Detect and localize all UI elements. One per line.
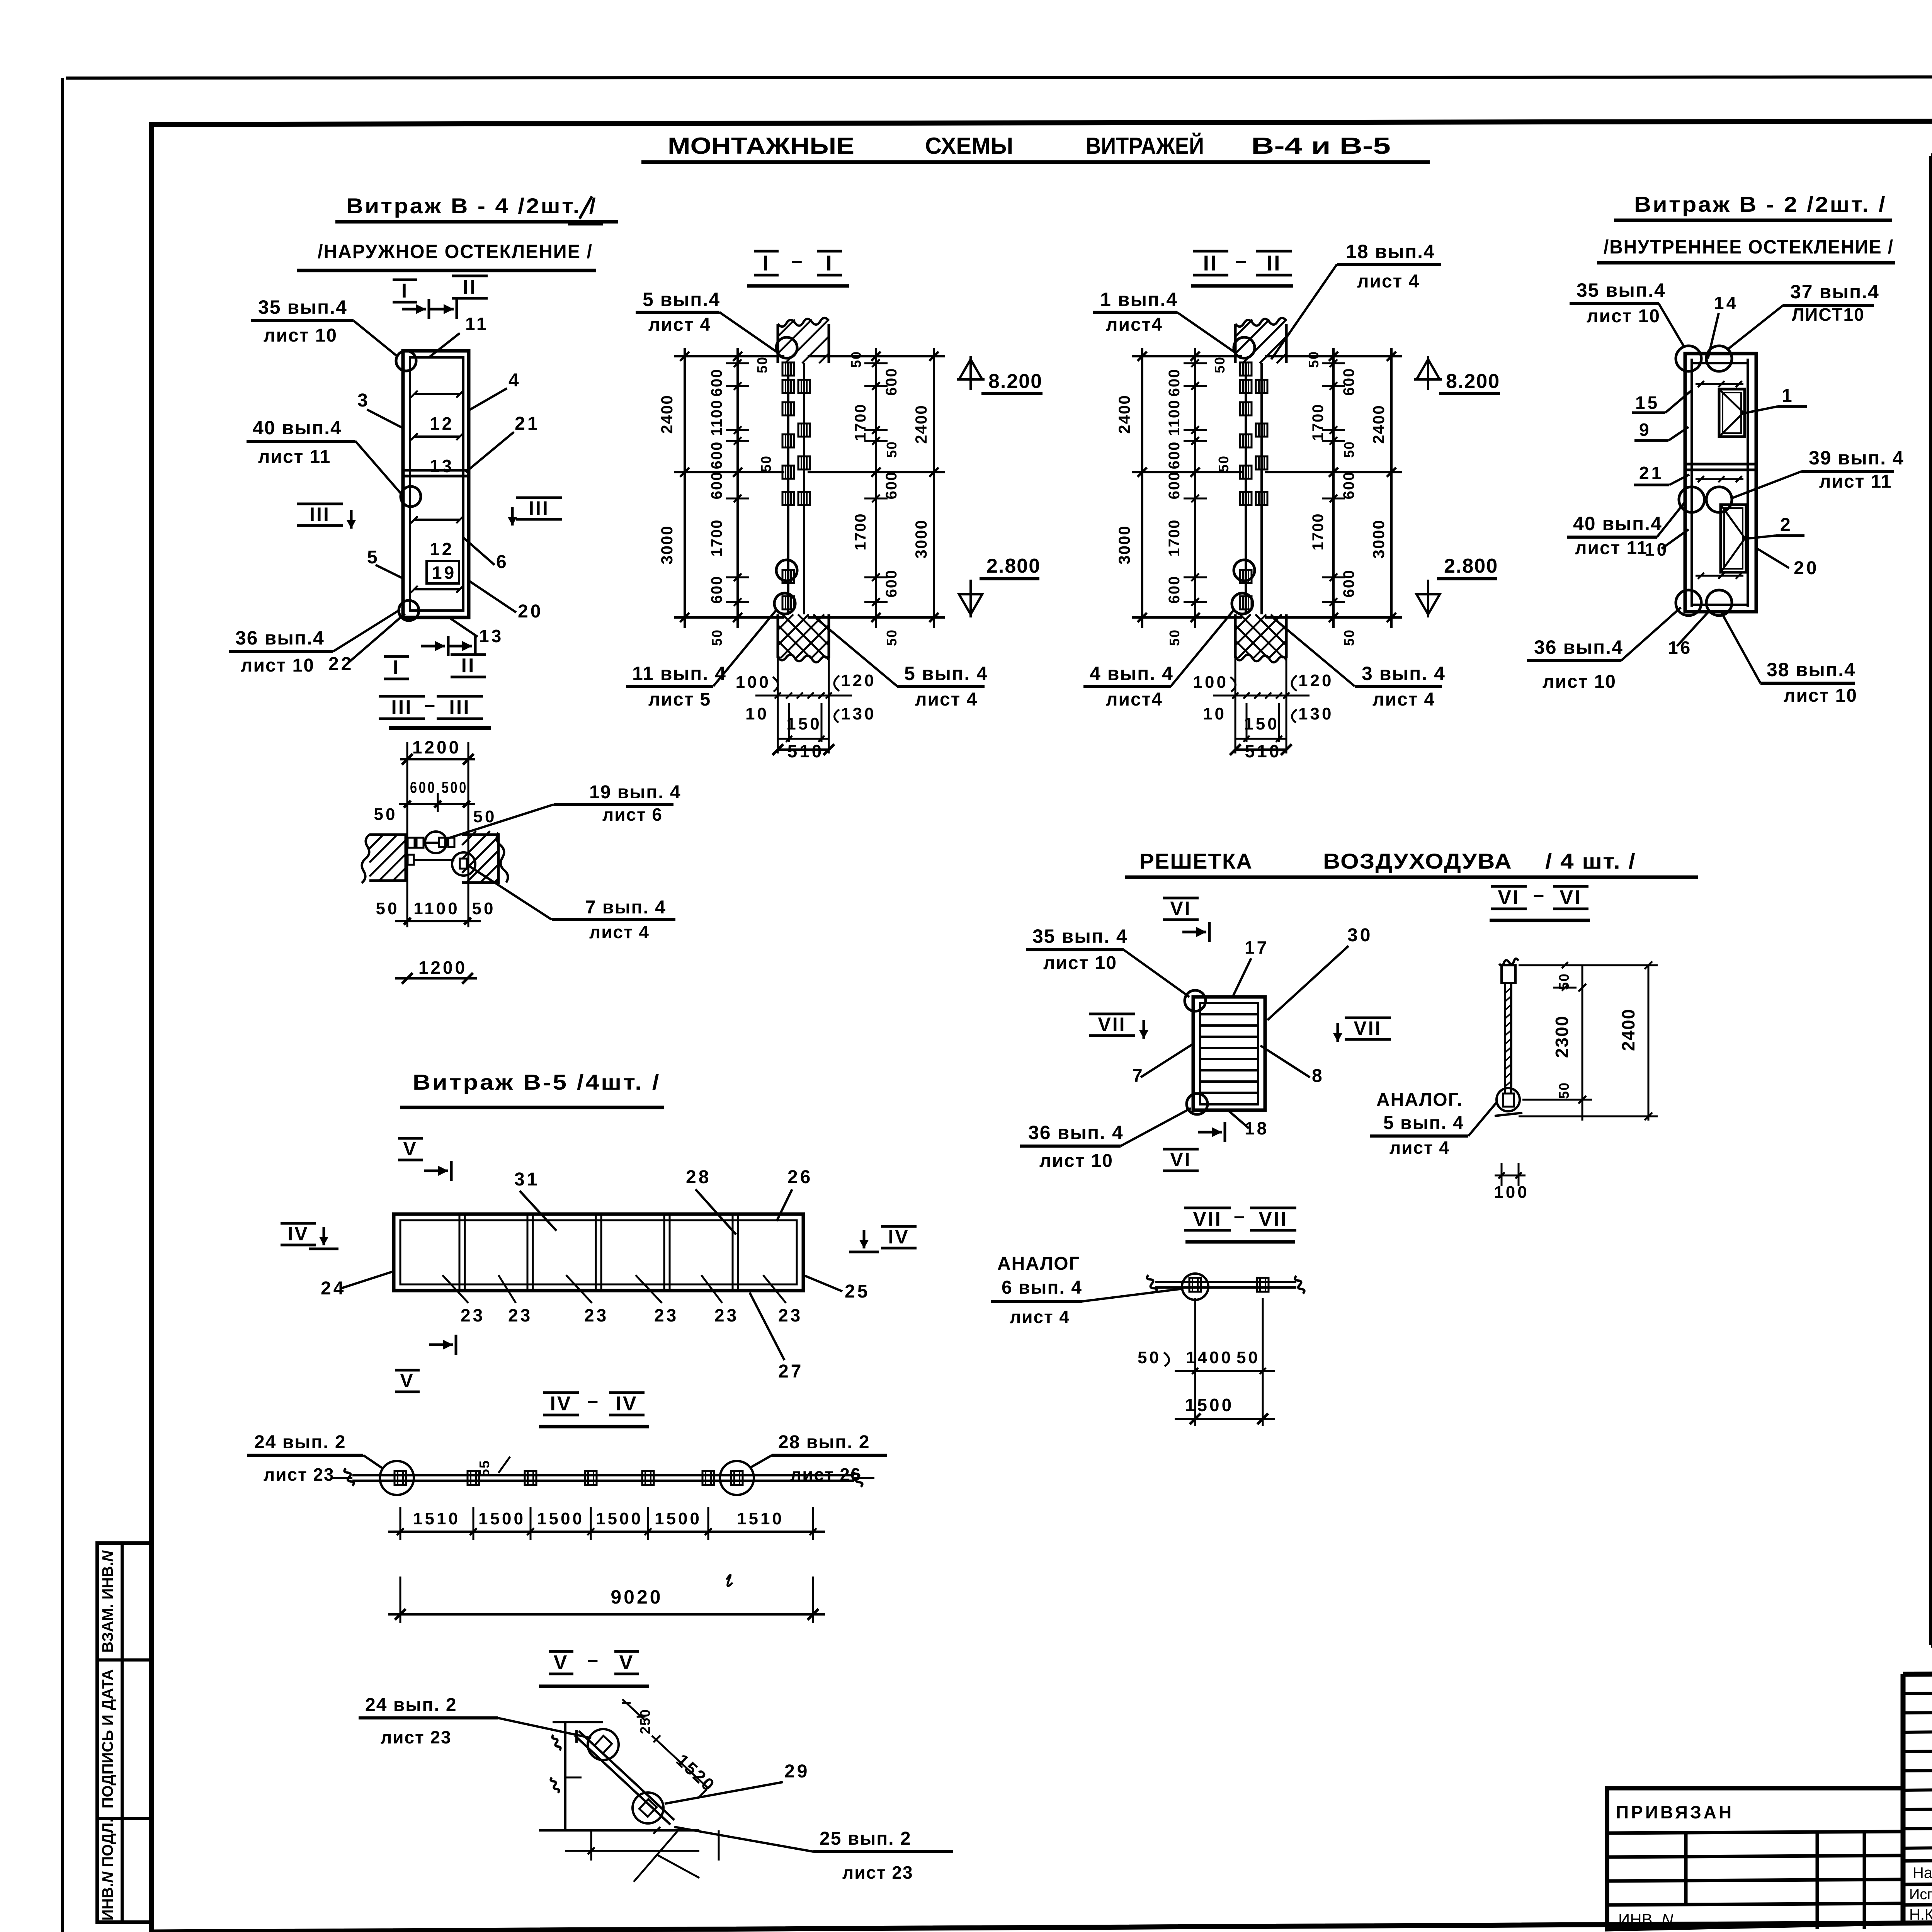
svg-text:3000: 3000: [658, 525, 676, 564]
svg-text:9020: 9020: [611, 1586, 663, 1608]
section I bottom hatched support: [778, 614, 829, 658]
svg-text:28 вып. 2: 28 вып. 2: [778, 1432, 870, 1452]
svg-text:1510: 1510: [413, 1509, 460, 1528]
svg-text:лист 4: лист 4: [1357, 271, 1420, 292]
svg-text:31: 31: [514, 1169, 539, 1190]
svg-text:1100: 1100: [1166, 400, 1183, 436]
svg-text:35 вып. 4: 35 вып. 4: [1032, 925, 1128, 947]
svg-text:7 вып. 4: 7 вып. 4: [585, 897, 666, 918]
svg-text:50: 50: [848, 351, 864, 368]
svg-text:лист 10: лист 10: [1784, 685, 1857, 706]
В-2 window frame: [1685, 354, 1756, 612]
svg-text:5 вып. 4: 5 вып. 4: [904, 663, 988, 684]
svg-text:2.800: 2.800: [1444, 555, 1498, 577]
svg-text:Нач.сек.: Нач.сек.: [1913, 1864, 1932, 1881]
svg-text:I: I: [401, 280, 408, 302]
section I level mark 2.800: [969, 580, 972, 617]
svg-text:3: 3: [357, 390, 370, 411]
svg-text:лист 5: лист 5: [648, 689, 711, 710]
svg-text:50: 50: [1341, 441, 1357, 458]
svg-text:АНАЛОГ: АНАЛОГ: [997, 1253, 1080, 1274]
svg-text:II: II: [461, 655, 476, 677]
svg-text:19 вып. 4: 19 вып. 4: [589, 782, 681, 803]
svg-text:–: –: [587, 1390, 600, 1412]
IV-IV dim 9020: [400, 1577, 401, 1623]
svg-text:19: 19: [432, 563, 456, 583]
svg-text:ВОЗДУХОДУВА: ВОЗДУХОДУВА: [1323, 849, 1512, 873]
svg-text:VI: VI: [1560, 886, 1582, 909]
svg-text:38 вып.4: 38 вып.4: [1767, 659, 1856, 680]
svg-text:600: 600: [1340, 471, 1357, 500]
svg-text:35 вып.4: 35 вып.4: [258, 296, 347, 318]
svg-text:V: V: [619, 1651, 634, 1674]
svg-text:лист4: лист4: [1106, 689, 1163, 710]
svg-text:лист 23: лист 23: [381, 1727, 452, 1747]
svg-text:ВИТРАЖЕЙ: ВИТРАЖЕЙ: [1086, 133, 1204, 159]
svg-text:лист4: лист4: [1106, 315, 1163, 335]
svg-text:ИНВ.N ПОДЛ.: ИНВ.N ПОДЛ.: [99, 1818, 116, 1921]
svg-text:250: 250: [637, 1709, 653, 1734]
svg-text:5 вып.4: 5 вып.4: [643, 289, 720, 310]
svg-text:VII: VII: [1193, 1208, 1222, 1230]
В-5 band: [394, 1214, 803, 1291]
svg-text:24 вып. 2: 24 вып. 2: [365, 1695, 457, 1715]
section I top hatched support: [778, 324, 829, 363]
svg-text:1510: 1510: [737, 1509, 784, 1528]
svg-text:11 вып. 4: 11 вып. 4: [632, 663, 726, 684]
svg-text:39 вып. 4: 39 вып. 4: [1809, 447, 1904, 469]
svg-text:600: 600: [708, 369, 725, 397]
svg-text:8: 8: [1312, 1066, 1325, 1086]
svg-text:25: 25: [845, 1281, 870, 1302]
В-4 horizontal divider: [403, 469, 469, 472]
svg-text:I: I: [762, 251, 770, 275]
svg-text:ПРИВЯЗАН: ПРИВЯЗАН: [1616, 1802, 1734, 1822]
svg-text:3000: 3000: [1369, 519, 1388, 558]
svg-text:лист 11: лист 11: [1819, 471, 1892, 492]
svg-text:/ВНУТРЕННЕЕ ОСТЕКЛЕНИЕ /: /ВНУТРЕННЕЕ ОСТЕКЛЕНИЕ /: [1604, 236, 1894, 258]
svg-text:/НАРУЖНОЕ ОСТЕКЛЕНИЕ /: /НАРУЖНОЕ ОСТЕКЛЕНИЕ /: [318, 241, 593, 262]
svg-text:1100: 1100: [413, 899, 459, 918]
main title underline: [641, 160, 1430, 164]
svg-text:–: –: [587, 1649, 600, 1670]
svg-text:24 вып. 2: 24 вып. 2: [254, 1432, 346, 1452]
svg-text:26: 26: [787, 1167, 813, 1187]
svg-text:1700: 1700: [852, 404, 869, 441]
VI-VI dim 2400: [1648, 965, 1650, 1121]
svg-text:В-4 и В-5: В-4 и В-5: [1251, 133, 1391, 159]
svg-text:МОНТАЖНЫЕ: МОНТАЖНЫЕ: [668, 133, 854, 159]
svg-text:VII: VII: [1098, 1014, 1126, 1035]
svg-text:II: II: [1266, 251, 1281, 275]
svg-text:600: 600: [883, 570, 900, 598]
svg-text:1100: 1100: [708, 400, 725, 436]
svg-text:5 вып. 4: 5 вып. 4: [1383, 1113, 1464, 1133]
svg-text:100: 100: [1193, 673, 1228, 692]
svg-text:55: 55: [476, 1460, 492, 1477]
svg-text:600: 600: [1340, 570, 1357, 598]
В-4 window frame: [403, 351, 469, 617]
svg-text:6 вып. 4: 6 вып. 4: [1002, 1277, 1082, 1298]
svg-text:1 вып.4: 1 вып.4: [1100, 289, 1178, 310]
svg-text:17: 17: [1245, 937, 1269, 957]
section II dimension verticals: [1141, 348, 1143, 628]
svg-text:–: –: [1533, 884, 1546, 905]
svg-text:2400: 2400: [912, 405, 930, 444]
svg-text:50: 50: [1138, 1348, 1161, 1367]
svg-text:II: II: [1203, 251, 1218, 275]
svg-text:16: 16: [1668, 638, 1692, 658]
svg-text:600: 600: [883, 471, 900, 500]
left attribute strip boxes: [97, 1543, 151, 1922]
В-4 inner dim lines: [414, 393, 460, 395]
svg-text:ВЗАМ. ИНВ.N: ВЗАМ. ИНВ.N: [99, 1550, 116, 1653]
svg-text:14: 14: [1714, 293, 1738, 313]
svg-text:–: –: [1236, 250, 1249, 272]
section I level mark 8.200: [969, 356, 972, 390]
svg-text:600: 600: [708, 471, 725, 500]
решетка grille: [1193, 997, 1265, 1110]
svg-text:50: 50: [374, 805, 398, 824]
svg-text:12: 12: [430, 413, 454, 434]
svg-text:23: 23: [461, 1305, 485, 1325]
svg-text:510: 510: [1245, 741, 1282, 761]
section II level mark 2.800: [1427, 580, 1429, 617]
svg-text:1700: 1700: [708, 519, 725, 557]
svg-text:50: 50: [1216, 455, 1231, 472]
svg-text:Витраж В-5 /4шт. /: Витраж В-5 /4шт. /: [413, 1070, 661, 1094]
svg-text:10: 10: [1645, 539, 1669, 560]
В-2 upper sash: [1719, 389, 1745, 437]
svg-text:–: –: [424, 694, 437, 715]
svg-text:СХЕМЫ: СХЕМЫ: [925, 133, 1013, 159]
svg-text:/ 4 шт. /: / 4 шт. /: [1545, 849, 1636, 873]
svg-text:10: 10: [1203, 704, 1226, 723]
svg-text:600: 600: [1340, 368, 1357, 396]
sheet outer border left: [61, 78, 64, 1932]
svg-text:3 вып. 4: 3 вып. 4: [1362, 663, 1446, 684]
svg-text:1700: 1700: [1310, 513, 1327, 551]
svg-text:2400: 2400: [1618, 1009, 1638, 1051]
В-2 divider: [1685, 463, 1756, 466]
svg-text:лист 10: лист 10: [1543, 672, 1616, 692]
svg-text:50: 50: [472, 899, 496, 918]
svg-text:23: 23: [584, 1305, 609, 1325]
svg-text:2: 2: [1780, 515, 1793, 535]
svg-text:III: III: [529, 497, 549, 519]
В-2 inner dim ticks: [1696, 383, 1743, 385]
IV-IV dim row: [400, 1507, 401, 1540]
svg-text:IV: IV: [550, 1393, 572, 1415]
svg-text:лист 10: лист 10: [264, 325, 337, 346]
sheet outer border top: [66, 77, 1932, 78]
svg-text:50: 50: [1167, 629, 1182, 646]
section II bottom hatched support: [1235, 614, 1286, 658]
svg-text:100: 100: [1494, 1183, 1529, 1202]
svg-text:150: 150: [786, 714, 821, 733]
svg-text:2400: 2400: [1115, 395, 1133, 434]
svg-text:36 вып.4: 36 вып.4: [235, 627, 325, 649]
svg-text:1500: 1500: [478, 1509, 526, 1528]
section II mullion: [1245, 363, 1247, 614]
svg-text:2400: 2400: [658, 395, 676, 434]
VI-VI dim 2300: [1582, 965, 1583, 1121]
svg-text:V: V: [403, 1138, 417, 1160]
svg-text:4 вып. 4: 4 вып. 4: [1090, 663, 1173, 684]
В-2 callout circles: [1676, 346, 1701, 371]
V-V diagonal band: [579, 1731, 674, 1820]
решетка callout circles: [1185, 990, 1206, 1011]
svg-text:37 вып.4: 37 вып.4: [1790, 281, 1879, 303]
svg-text:III: III: [449, 696, 470, 719]
V-V connector circles: [594, 1736, 612, 1753]
svg-text:Исполнил: Исполнил: [1909, 1886, 1932, 1903]
III-III hatched walls: [369, 835, 406, 881]
section I main horizontals: [674, 355, 784, 357]
svg-text:1700: 1700: [1166, 519, 1183, 557]
svg-text:Витраж В - 4 /2шт. /: Витраж В - 4 /2шт. /: [346, 194, 597, 218]
svg-text:лист 10: лист 10: [241, 655, 315, 676]
svg-text:V: V: [400, 1370, 414, 1391]
svg-text:2400: 2400: [1369, 405, 1388, 444]
В-2 lower sash: [1721, 505, 1746, 572]
svg-text:1200: 1200: [418, 957, 467, 978]
svg-text:лист 4: лист 4: [1372, 689, 1435, 710]
svg-text:120: 120: [841, 671, 876, 690]
svg-text:1700: 1700: [852, 513, 869, 551]
V-V corner structure: [564, 1722, 566, 1830]
svg-text:15: 15: [1635, 393, 1660, 413]
svg-text:4: 4: [509, 370, 521, 391]
svg-text:Витраж В - 2 /2шт. /: Витраж В - 2 /2шт. /: [1634, 192, 1887, 216]
svg-text:лист 4: лист 4: [1010, 1307, 1070, 1327]
svg-text:510: 510: [787, 741, 824, 761]
svg-text:11: 11: [465, 314, 489, 334]
svg-text:13: 13: [479, 626, 503, 646]
svg-text:23: 23: [714, 1305, 739, 1325]
svg-text:III: III: [310, 503, 330, 525]
svg-text:50: 50: [884, 441, 900, 458]
svg-text:12: 12: [430, 539, 454, 559]
svg-text:лист 11: лист 11: [1575, 538, 1648, 558]
svg-text:40 вып.4: 40 вып.4: [253, 417, 342, 439]
svg-text:29: 29: [784, 1761, 810, 1782]
svg-text:600: 600: [1166, 369, 1183, 397]
svg-text:150: 150: [1244, 714, 1279, 733]
svg-text:VII: VII: [1354, 1017, 1382, 1039]
svg-text:30: 30: [1347, 925, 1372, 946]
section II top hatched support: [1235, 324, 1286, 363]
svg-text:лист 4: лист 4: [589, 922, 650, 942]
svg-text:600: 600: [708, 576, 725, 604]
svg-text:ПОДПИСЬ И ДАТА: ПОДПИСЬ И ДАТА: [99, 1669, 116, 1808]
section I bottom small dims: [777, 658, 779, 753]
svg-text:27: 27: [778, 1361, 803, 1382]
svg-text:21: 21: [1639, 463, 1663, 483]
svg-text:ЛИСТ10: ЛИСТ10: [1792, 304, 1865, 325]
svg-text:36 вып.4: 36 вып.4: [1534, 636, 1623, 658]
svg-text:III: III: [391, 696, 412, 719]
section II bottom small dims: [1235, 658, 1236, 753]
svg-text:23: 23: [508, 1305, 532, 1325]
svg-text:1500: 1500: [1185, 1395, 1234, 1415]
svg-text:ИНВ. N: ИНВ. N: [1618, 1910, 1673, 1929]
svg-text:5: 5: [367, 547, 380, 568]
svg-text:23: 23: [654, 1305, 679, 1325]
stray slash mark: [580, 196, 592, 219]
решетка VI mark bottom: [1198, 1131, 1222, 1134]
svg-text:1700: 1700: [1310, 404, 1327, 441]
svg-text:600: 600: [708, 441, 725, 469]
svg-text:8.200: 8.200: [988, 370, 1043, 393]
svg-text:VII: VII: [1259, 1208, 1288, 1230]
svg-text:1500: 1500: [537, 1509, 584, 1528]
svg-text:600: 600: [1166, 441, 1183, 469]
svg-text:50: 50: [884, 629, 900, 646]
svg-text:50: 50: [758, 455, 774, 472]
svg-text:I: I: [393, 656, 400, 679]
svg-text:1400: 1400: [1186, 1348, 1233, 1367]
svg-text:РЕШЕТКА: РЕШЕТКА: [1139, 849, 1253, 873]
privyazan grid: [1607, 1832, 1903, 1833]
svg-text:50: 50: [1212, 356, 1228, 373]
svg-text:лист 23: лист 23: [264, 1464, 335, 1485]
svg-text:1200: 1200: [412, 737, 461, 757]
svg-text:2300: 2300: [1552, 1015, 1572, 1058]
В-4 callout circles: [396, 351, 416, 371]
svg-text:3000: 3000: [1115, 525, 1133, 564]
svg-text:600 500: 600 500: [410, 778, 468, 796]
svg-text:130: 130: [1298, 704, 1333, 723]
svg-text:IV: IV: [616, 1393, 638, 1415]
В-5 V mark bottom: [429, 1344, 453, 1346]
svg-text:8.200: 8.200: [1446, 370, 1500, 393]
svg-text:–: –: [1234, 1205, 1247, 1227]
svg-text:лист 11: лист 11: [258, 447, 331, 467]
svg-text:лист 4: лист 4: [1389, 1138, 1450, 1158]
svg-text:1: 1: [1782, 386, 1794, 406]
VI-VI column: [1502, 965, 1515, 983]
svg-text:I: I: [826, 251, 833, 275]
svg-text:Н.Конт.: Н.Конт.: [1909, 1906, 1932, 1923]
svg-text:18 вып.4: 18 вып.4: [1346, 241, 1435, 262]
svg-text:1500: 1500: [596, 1509, 643, 1528]
svg-text:II: II: [463, 276, 477, 298]
svg-text:50: 50: [1306, 351, 1321, 368]
III-III connectors: [408, 838, 415, 848]
svg-text:40 вып.4: 40 вып.4: [1573, 513, 1662, 534]
section I callout circles: [776, 337, 797, 358]
svg-text:АНАЛОГ.: АНАЛОГ.: [1376, 1090, 1463, 1110]
svg-text:лист 6: лист 6: [602, 804, 663, 825]
svg-text:21: 21: [515, 413, 540, 434]
section I dimension verticals: [684, 348, 686, 628]
svg-text:100: 100: [736, 673, 771, 692]
svg-text:50: 50: [1556, 1082, 1572, 1099]
svg-text:50: 50: [1236, 1348, 1260, 1367]
svg-text:V: V: [554, 1651, 569, 1674]
svg-text:22: 22: [328, 654, 354, 674]
V-V bottom ticks: [565, 1850, 699, 1852]
svg-text:2.800: 2.800: [986, 555, 1041, 577]
section II main horizontals: [1132, 355, 1242, 357]
section I mullion: [787, 363, 789, 614]
svg-text:10: 10: [745, 704, 769, 723]
svg-text:лист 4: лист 4: [648, 315, 711, 335]
svg-text:IV: IV: [888, 1226, 909, 1248]
title block outline: [1903, 1668, 1932, 1923]
svg-text:50: 50: [1341, 629, 1357, 646]
svg-text:лист 10: лист 10: [1043, 953, 1117, 973]
svg-text:130: 130: [841, 704, 876, 723]
section II callout circles: [1234, 337, 1255, 358]
svg-text:23: 23: [778, 1305, 803, 1325]
spec table grid: [1931, 153, 1932, 158]
svg-text:600: 600: [1166, 471, 1183, 500]
svg-text:лист 23: лист 23: [842, 1862, 913, 1883]
svg-text:50: 50: [376, 899, 400, 918]
title block left grid rows: [1903, 1691, 1932, 1694]
svg-text:120: 120: [1298, 671, 1333, 690]
svg-text:36 вып. 4: 36 вып. 4: [1028, 1122, 1124, 1143]
svg-text:50: 50: [754, 356, 770, 373]
svg-text:лист 26: лист 26: [790, 1464, 861, 1485]
svg-text:VI: VI: [1170, 1149, 1191, 1170]
svg-text:6: 6: [496, 552, 509, 572]
VII-VII bar: [1155, 1281, 1296, 1283]
svg-text:9: 9: [1639, 420, 1651, 440]
section I minor ticks: [726, 362, 749, 364]
section II level mark 8.200: [1427, 356, 1429, 390]
svg-text:50: 50: [709, 629, 725, 646]
svg-text:лист 4: лист 4: [915, 689, 978, 710]
svg-text:20: 20: [518, 601, 543, 622]
svg-text:лист 10: лист 10: [1039, 1151, 1113, 1171]
svg-text:VI: VI: [1170, 898, 1191, 919]
IV-IV bar: [352, 1474, 854, 1476]
privyazan box: [1607, 1788, 1903, 1929]
svg-text:3000: 3000: [912, 519, 930, 558]
svg-text:лист 10: лист 10: [1587, 306, 1660, 327]
svg-text:–: –: [791, 250, 805, 272]
svg-text:28: 28: [686, 1167, 711, 1187]
svg-text:VI: VI: [1498, 886, 1520, 909]
svg-text:25 вып. 2: 25 вып. 2: [820, 1828, 912, 1849]
svg-text:13: 13: [430, 456, 454, 476]
section II minor ticks: [1184, 362, 1207, 364]
svg-text:20: 20: [1794, 558, 1819, 578]
svg-text:1500: 1500: [655, 1509, 702, 1528]
svg-text:IV: IV: [287, 1223, 309, 1245]
svg-text:35 вып.4: 35 вып.4: [1577, 279, 1666, 301]
svg-text:600: 600: [1166, 576, 1183, 604]
svg-text:600: 600: [883, 368, 900, 396]
